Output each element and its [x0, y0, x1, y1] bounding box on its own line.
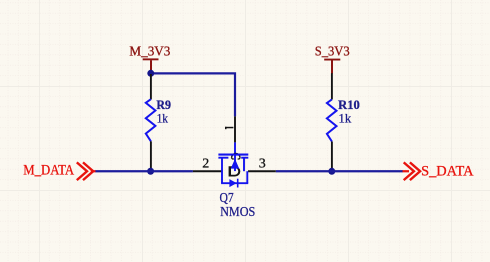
resistor R10 — [327, 73, 360, 168]
wire S_DATA segment — [276, 170, 403, 172]
power bar S_3V3 — [324, 59, 340, 61]
source tap / body loop left — [221, 158, 223, 184]
junction at M_3V3 / R9 / gate wire — [147, 70, 154, 77]
port S_DATA chevron 2 — [410, 162, 420, 180]
wire M_DATA segment — [95, 170, 193, 172]
channel bar left — [218, 157, 228, 159]
gate bar — [218, 154, 248, 156]
svg-text:R9: R9 — [156, 98, 171, 112]
drain tap right — [243, 158, 245, 172]
pin name D glyph — [229, 166, 241, 176]
R10 top lead — [331, 73, 333, 99]
port M_DATA tail stub — [91, 170, 96, 172]
channel bar right — [241, 157, 248, 159]
transistor Q7 NMOS — [193, 116, 276, 218]
power port S_3V3 — [315, 43, 350, 73]
R9 top lead — [150, 74, 152, 99]
body loop right — [246, 171, 248, 183]
power bar M_3V3 — [143, 58, 159, 60]
pin 3 lead — [248, 170, 276, 172]
port S_DATA tail stub — [403, 170, 410, 172]
svg-text:1k: 1k — [339, 111, 352, 125]
wire gate net: junction to transistor gate — [151, 73, 235, 116]
body loop bottom — [221, 182, 248, 184]
junction at R9 / M_DATA wire — [147, 168, 154, 175]
port S_DATA — [403, 162, 475, 180]
svg-text:S_DATA: S_DATA — [421, 164, 474, 180]
bulk arrow — [231, 159, 240, 169]
svg-text:1k: 1k — [157, 111, 169, 125]
port M_DATA chevron 2 — [83, 162, 93, 180]
pin 2 lead — [193, 170, 222, 172]
svg-text:2: 2 — [202, 157, 209, 172]
svg-text:M_DATA: M_DATA — [23, 163, 74, 179]
svg-text:3: 3 — [259, 157, 266, 172]
svg-text:R10: R10 — [338, 98, 360, 112]
R9 bottom lead — [150, 141, 152, 168]
svg-text:S_3V3: S_3V3 — [315, 43, 350, 58]
body diode — [229, 179, 236, 187]
svg-text:M_3V3: M_3V3 — [129, 43, 170, 58]
power stem S_3V3 — [331, 60, 333, 73]
junction at R10 / S_DATA wire — [328, 168, 335, 175]
resistor R9 — [146, 74, 171, 168]
port M_DATA — [23, 162, 95, 180]
gate stem and bulk line — [234, 142, 236, 171]
power port M_3V3 — [129, 43, 170, 73]
svg-text:NMOS: NMOS — [220, 204, 255, 219]
R10 bottom lead — [331, 142, 333, 169]
R10 zigzag body — [327, 99, 337, 141]
power stem M_3V3 — [150, 60, 152, 73]
svg-text:Q7: Q7 — [220, 190, 235, 205]
pin 1 designator (rotated 1) — [225, 127, 233, 129]
pin name B ring glyph — [232, 154, 240, 158]
R9 zigzag body — [146, 99, 156, 141]
port M_DATA chevron 1 — [77, 162, 87, 180]
port S_DATA chevron 1 — [404, 162, 414, 180]
pin 1 gate lead — [234, 116, 236, 142]
